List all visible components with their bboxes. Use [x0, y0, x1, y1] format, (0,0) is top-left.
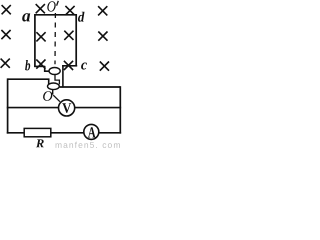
field cross row1 col3 — [65, 6, 74, 15]
field cross row2 col2 — [36, 32, 45, 41]
field cross row2 col4 — [98, 32, 107, 41]
label O bottom — [43, 91, 52, 101]
field cross row2 col3 — [64, 31, 73, 40]
brush wire right: to right rail — [60, 86, 121, 88]
coil left end elbow into ring 1 — [45, 66, 50, 71]
voltmeter U1 circle — [59, 100, 75, 116]
label O' top — [47, 1, 55, 11]
label b — [25, 60, 30, 70]
resistor R box — [24, 128, 51, 136]
coil bottom edge right segment (c side) — [62, 65, 77, 67]
label c — [81, 63, 87, 70]
field cross row3 col2 — [36, 60, 45, 69]
brush wire left: ring2 left to left rail — [8, 79, 49, 84]
axle stub below ring 2 — [52, 90, 54, 95]
right rail wire — [119, 86, 121, 133]
field cross row1 col4 — [98, 6, 107, 15]
ammeter A label — [88, 127, 96, 137]
axis OO' dashed line — [54, 13, 56, 64]
field cross row1 col2 — [36, 4, 45, 13]
left rail wire — [7, 78, 9, 133]
label a — [22, 13, 30, 21]
short diagonal from axle to voltmeter — [53, 95, 60, 102]
voltmeter branch wire — [7, 107, 121, 109]
slip ring 2 — [48, 83, 60, 90]
coil loop abcd: left, top, right sides — [35, 15, 76, 67]
field cross row2 col1 — [1, 30, 10, 39]
coil right end vertical down past rings — [62, 65, 64, 88]
field cross row3 col3 — [64, 61, 73, 70]
bottom wire — [7, 132, 121, 134]
voltmeter V label — [62, 103, 71, 113]
field cross row1 col1 — [2, 5, 11, 14]
field cross row3 col1 — [1, 59, 10, 68]
ammeter A1 circle — [84, 124, 99, 139]
label d — [78, 12, 85, 22]
label R — [36, 139, 44, 147]
slip ring 1 — [49, 68, 60, 75]
svg-text:manfen5. com: manfen5. com — [55, 140, 121, 149]
field cross row3 col4 — [100, 62, 109, 71]
axle segment between rings with jog — [55, 75, 59, 85]
coil bottom edge left segment (b side) — [34, 65, 45, 67]
